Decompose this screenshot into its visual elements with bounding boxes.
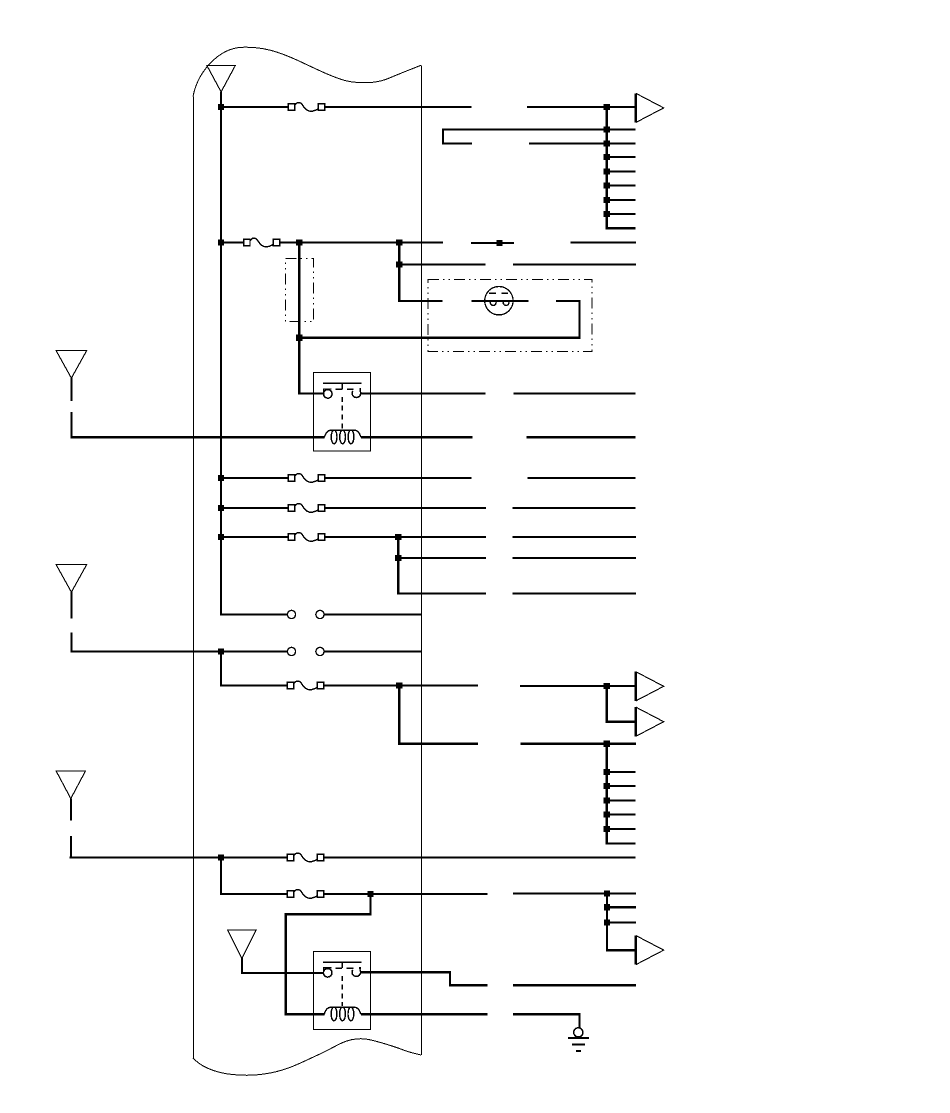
relay R1 armature bar: [323, 383, 362, 391]
antenna symbol A2: [56, 350, 87, 378]
wire row y508 middle: [324, 507, 486, 509]
node L3-1: [604, 904, 610, 910]
wire connector row y614 right: [324, 613, 421, 615]
connector terminals C1: [287, 610, 324, 618]
antenna symbol A1: [207, 66, 235, 92]
wire row2 left segment: [221, 241, 244, 243]
antenna A2 stem lower: [70, 412, 72, 436]
antenna symbol A3: [56, 564, 87, 592]
tap stub wire y157: [607, 156, 636, 158]
node J10: [296, 335, 302, 341]
wire row y893 right: [513, 892, 636, 894]
wire arrow pair drop: [607, 686, 636, 722]
branch wire (bus to lamp return): [298, 243, 300, 339]
wire bus drop to row y685: [221, 650, 288, 685]
node L2-3: [604, 797, 610, 803]
node L1-3: [604, 182, 610, 188]
node J6: [296, 239, 302, 245]
node J7: [396, 239, 402, 245]
wire shield bracket top: [443, 130, 607, 144]
wire to arrow P4: [606, 949, 636, 951]
relay R2 actuating link: [341, 976, 343, 1006]
relay R2 armature bar: [323, 962, 362, 970]
wire row y593 right: [513, 592, 637, 594]
wire antenna A3 row: [70, 650, 287, 652]
relay R1 fixed contact: [324, 390, 333, 399]
node J22: [604, 891, 610, 897]
wire row y478 left: [221, 477, 289, 479]
tap ladder 1 bottom stub: [606, 227, 636, 229]
node J1 (bus top): [218, 104, 224, 110]
node L1-1: [604, 154, 610, 160]
node L1-4: [604, 197, 610, 203]
wire row y537 left: [221, 536, 289, 538]
node J19: [604, 741, 610, 747]
tap stub wire y907.3: [607, 906, 636, 908]
node J15: [395, 555, 401, 561]
wire connector row y651 right: [324, 650, 421, 652]
wire relay2 coil feed path: [286, 894, 371, 1014]
wire row y558 left: [398, 557, 486, 559]
tap stub wire y829: [607, 828, 636, 830]
tap stub wire y800.5: [607, 799, 636, 801]
wire relay1 output right: [514, 392, 636, 394]
wire row2 middle segment: [280, 241, 442, 243]
wire bus drop to row y894: [221, 856, 288, 894]
fuse F2: [244, 238, 280, 247]
tap stub wire y171.5: [607, 170, 636, 172]
wire-harness container torn-edge bottom: [193, 1039, 421, 1076]
tap stub wire y814.5: [607, 813, 636, 815]
wire row y894 middle: [323, 893, 487, 895]
antenna A2 stem upper: [70, 378, 72, 401]
wire row y508 left: [221, 507, 289, 509]
node J18: [604, 683, 610, 689]
wire relay1 coil output right segment: [526, 436, 635, 438]
wire relay2 output jog: [361, 972, 488, 985]
tap ladder 1 vertical: [606, 107, 608, 228]
tap stub wire y772: [607, 771, 636, 773]
node J13: [218, 534, 224, 540]
connector arrow P4: [636, 936, 664, 965]
node J14: [395, 534, 401, 540]
wire row y558 right: [513, 557, 637, 559]
relay R1 moving contact: [352, 391, 361, 398]
branch wire x398: [397, 537, 399, 595]
wire row y685 middle: [323, 684, 478, 686]
wire lamp return loop: [299, 301, 579, 338]
wire relay1 coil feed (from antenna A2): [70, 436, 324, 438]
connector arrow P2: [636, 672, 664, 701]
branch wire x399 down: [398, 684, 400, 744]
node L1-5: [604, 211, 610, 217]
node J21: [367, 891, 373, 897]
wire relay1 output left: [361, 392, 485, 394]
fuse F7: [287, 853, 323, 862]
wire row y686 right: [520, 685, 637, 687]
wire row y985 right: [513, 984, 636, 986]
antenna symbol A5: [228, 930, 257, 958]
node J11: [218, 475, 224, 481]
antenna A4 stem lower: [70, 836, 72, 859]
wire row y593 left: [397, 592, 486, 594]
node L2-4: [604, 811, 610, 817]
antenna symbol A4: [56, 771, 85, 799]
fuse F5: [288, 533, 324, 542]
fuse F4: [288, 504, 324, 513]
relay R2 box: [314, 951, 371, 1029]
tap stub wire y185.5: [607, 184, 636, 186]
wire antenna A4 row: [70, 856, 288, 858]
wire lamp feed stub: [399, 300, 442, 302]
node J9: [396, 261, 402, 267]
wire-harness container outline (right border): [421, 66, 423, 1056]
node L3-2: [604, 920, 610, 926]
wire relay1 coil output: [361, 436, 473, 438]
stub wire y129: [607, 128, 636, 130]
tap stub wire y922.6: [607, 921, 636, 923]
node L2-2: [604, 783, 610, 789]
relay R2 fixed contact: [323, 969, 332, 978]
node J8: [497, 240, 503, 246]
tap ladder 2 bottom stub: [606, 842, 636, 844]
tap stub wire y200: [607, 199, 636, 201]
wire-harness container outline (left border): [193, 97, 195, 1059]
wire row y537 right: [513, 536, 637, 538]
wire relay2 coil output: [361, 1013, 488, 1015]
ground G1: [568, 1028, 589, 1051]
connector arrow P1: [636, 93, 664, 122]
relay R1 box: [314, 372, 371, 451]
node L2-5: [604, 826, 610, 832]
antenna A4 stem upper: [70, 798, 72, 820]
tap ladder 3 vertical: [606, 894, 608, 951]
wire row2 right segment: [571, 241, 636, 243]
antenna A3 stem upper: [70, 592, 72, 619]
wire row1 middle segment: [324, 106, 471, 108]
antenna A3 stem lower: [70, 633, 72, 653]
node J4: [604, 140, 610, 146]
antenna A5 stem: [241, 958, 243, 974]
wire bus bottom corner to connector row: [221, 613, 287, 615]
relay R1 actuating link: [341, 397, 343, 429]
wire lamp segment: [472, 300, 529, 302]
node L2-1: [604, 769, 610, 775]
wire row y264 left segment: [399, 263, 485, 265]
node J12: [218, 505, 224, 511]
small sub-harness dash-dot boundary: [286, 258, 314, 321]
wire row y743 left: [398, 743, 478, 745]
tap ladder 2 vertical: [606, 744, 608, 844]
wire bus-to-relay1: [299, 338, 323, 394]
node J5: [218, 239, 224, 245]
wire row y743 right: [521, 743, 636, 745]
wire row y508 right: [513, 507, 636, 509]
connector terminals C2: [287, 647, 324, 655]
wire row1 left segment: [221, 106, 289, 108]
tap stub wire y786: [607, 785, 636, 787]
wire row2 connector segment: [471, 242, 514, 244]
relay R1 coil: [324, 430, 361, 444]
fuse F1: [288, 103, 324, 112]
node J2 (tap ladder top): [604, 104, 610, 110]
wire-harness container torn-edge top: [193, 47, 421, 96]
wire row y857 long segment: [323, 856, 635, 858]
fuse F8: [287, 890, 323, 899]
connector arrow P3: [636, 707, 664, 736]
node J17: [396, 682, 402, 688]
branch wire (to lamp feed): [398, 243, 400, 303]
lamp L1 (bulb): [485, 287, 513, 315]
wire antenna A5 to relay2: [242, 972, 324, 974]
node L1-2: [604, 168, 610, 174]
node J20: [218, 854, 224, 860]
fuse F3: [288, 474, 324, 483]
fuse F6: [287, 681, 323, 690]
wire row y537 middle: [324, 536, 486, 538]
relay R2 moving contact: [352, 970, 361, 977]
illumination lamp dash-dot boundary: [428, 280, 592, 352]
antenna A1 stem: [220, 92, 222, 107]
wire row y478 right: [528, 477, 636, 479]
wire row y478 middle: [324, 477, 471, 479]
main power bus (vertical): [220, 106, 222, 616]
wire row1 right segment: [527, 106, 637, 108]
antenna A2 stem corner: [70, 436, 72, 438]
wire row y143: [529, 142, 636, 144]
node J3: [604, 126, 610, 132]
wire to ground: [513, 1014, 580, 1028]
tap stub wire y214: [607, 213, 636, 215]
wire row y264 right segment: [513, 263, 636, 265]
node J16: [218, 648, 224, 654]
relay R2 coil: [324, 1007, 361, 1021]
